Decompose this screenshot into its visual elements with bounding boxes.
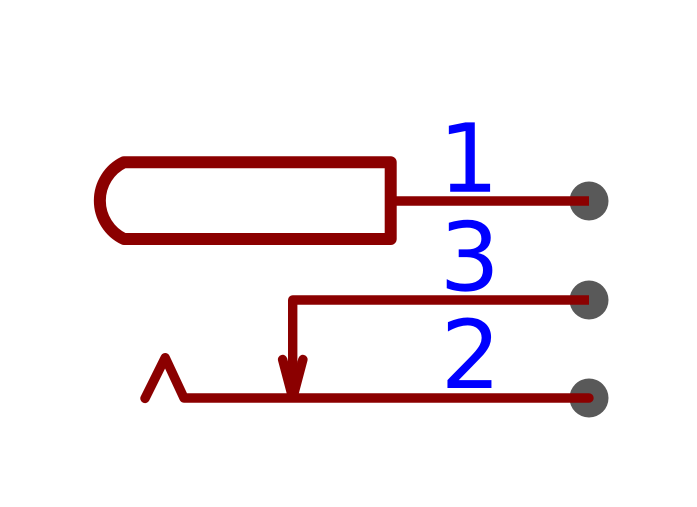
wire pin 2 (tip) with switch contact zigzag [145,358,589,399]
audio jack plug body J1 [100,162,391,239]
pin 1 end pad [570,182,609,221]
pin 2 end pad [570,379,609,418]
switch arrow head [283,360,303,398]
wire pin 1 (sleeve) [391,196,589,205]
wire pin 3 (ring / switch drive) [293,300,589,385]
pin 3 end pad [570,281,609,320]
pin number 2 [447,317,491,388]
pin number 1 [449,122,490,191]
pin number 3 [447,220,493,292]
